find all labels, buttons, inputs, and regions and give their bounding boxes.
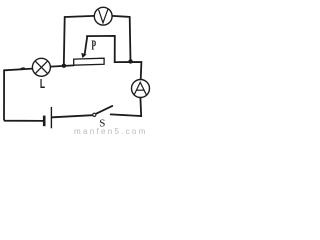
svg-text:P: P [91, 38, 96, 53]
svg-text:L: L [40, 77, 46, 91]
svg-text:manfen5.com: manfen5.com [74, 127, 148, 134]
